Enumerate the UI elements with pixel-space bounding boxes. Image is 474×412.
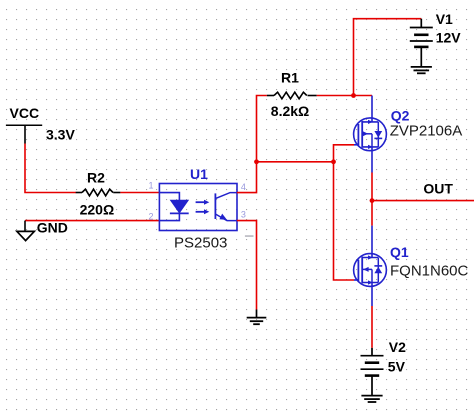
wire node C to Q2 source xyxy=(354,95,373,97)
svg-text:V2: V2 xyxy=(389,339,406,355)
svg-text:R1: R1 xyxy=(281,69,299,85)
wire Q1 source down to V2 xyxy=(371,283,373,348)
svg-text:OUT: OUT xyxy=(423,181,453,197)
svg-text:3: 3 xyxy=(241,210,246,220)
svg-text:1: 1 xyxy=(149,181,154,191)
svg-text:Q1: Q1 xyxy=(390,244,409,260)
svg-text:Q2: Q2 xyxy=(391,108,410,124)
svg-text:V1: V1 xyxy=(436,11,453,27)
wire node B up to Q2 gate xyxy=(334,145,355,162)
wire U1 pin3 down to ground xyxy=(237,221,257,310)
wire VCC to R2 xyxy=(25,144,76,193)
battery V1 xyxy=(410,19,433,74)
svg-text:12V: 12V xyxy=(436,30,462,46)
wire U1 pin2 to GND xyxy=(25,220,159,222)
resistor R1 xyxy=(267,92,317,99)
battery V2 xyxy=(361,348,384,402)
junction node C xyxy=(351,93,356,98)
transistor Q2 xyxy=(354,118,387,151)
svg-text:220Ω: 220Ω xyxy=(80,202,115,218)
svg-text:8.2kΩ: 8.2kΩ xyxy=(271,103,309,119)
wire node A to node B xyxy=(257,161,334,163)
wire R1 to node C xyxy=(317,95,354,97)
junction node A xyxy=(254,159,259,164)
ground GND symbol xyxy=(17,221,34,241)
svg-text:ZVP2106A: ZVP2106A xyxy=(390,122,463,139)
wire node B down to Q1 gate xyxy=(334,162,355,280)
svg-text:PS2503: PS2503 xyxy=(174,235,227,252)
wire U1 pin4 up to node xyxy=(237,162,257,193)
phototransistor inside U1 xyxy=(214,193,216,219)
LED inside U1 xyxy=(159,193,179,201)
ground under pin3 xyxy=(247,310,267,325)
junction node B xyxy=(331,159,336,164)
svg-text:3.3V: 3.3V xyxy=(46,127,75,143)
wire Q2 drain to node OUT xyxy=(371,147,373,201)
junction node OUT xyxy=(370,198,375,203)
wire R2 to U1 pin1 xyxy=(120,192,159,194)
svg-text:2: 2 xyxy=(149,212,154,222)
transistor Q1 xyxy=(354,254,387,287)
svg-text:R2: R2 xyxy=(87,169,105,185)
svg-text:U1: U1 xyxy=(190,166,208,182)
resistor R2 xyxy=(76,189,121,196)
node VCC power symbol xyxy=(6,125,42,143)
svg-text:VCC: VCC xyxy=(10,105,40,121)
wire OUT to right edge xyxy=(372,200,474,202)
svg-text:4: 4 xyxy=(241,182,246,192)
coupling arrows xyxy=(196,201,204,203)
wire node C up to V1 xyxy=(354,19,422,96)
stray gray dash xyxy=(245,235,254,237)
svg-text:5V: 5V xyxy=(388,359,406,375)
svg-text:GND: GND xyxy=(37,220,68,236)
wire node A up to R1 xyxy=(257,96,267,162)
wire Q2 source lead xyxy=(371,96,373,122)
svg-text:FQN1N60C: FQN1N60C xyxy=(390,262,469,279)
wire node OUT down to Q1 drain xyxy=(371,201,373,258)
op-amp U1 optocoupler PS2503 xyxy=(159,184,237,231)
